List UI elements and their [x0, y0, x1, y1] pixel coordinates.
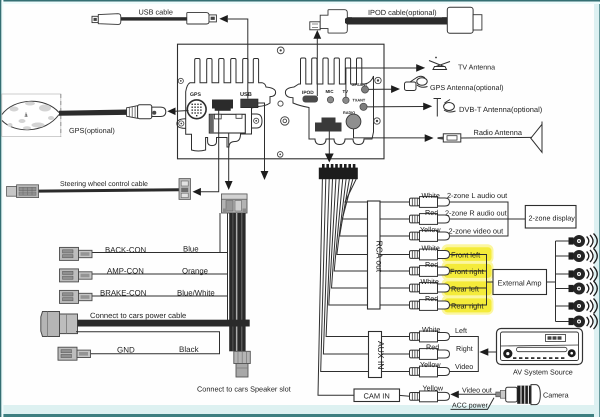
svg-text:Left: Left [455, 326, 467, 335]
head unit chassis box [178, 44, 385, 159]
svg-text:White: White [422, 243, 440, 252]
svg-text:GND: GND [117, 346, 135, 355]
svg-text:Video out: Video out [462, 386, 492, 394]
svg-text:Yellow: Yellow [420, 360, 441, 369]
svg-text:USB: USB [240, 92, 252, 98]
2-zone display box [525, 206, 576, 229]
wires AUX IN rows junction [450, 337, 497, 372]
wire IPOD port up, arrow to IPOD cable [313, 30, 321, 96]
yellow highlight Rear right [442, 295, 494, 314]
wire USB cable down to USB port [228, 19, 248, 99]
speaker 6 [569, 314, 598, 329]
CAM IN box [354, 389, 400, 402]
svg-text:IPOD: IPOD [302, 90, 314, 96]
RCA plug CAM video out [410, 391, 450, 402]
MIC port [326, 89, 335, 103]
RCA plug Front right [410, 266, 450, 277]
screw right edge upper [375, 77, 381, 83]
TV antenna icon [429, 57, 450, 70]
svg-text:CAM IN: CAM IN [364, 392, 390, 401]
svg-text:Radio Antenna: Radio Antenna [474, 128, 523, 137]
svg-text:GPS(optional): GPS(optional) [69, 126, 115, 135]
svg-text:External Amp: External Amp [498, 278, 542, 287]
svg-text:RADIO: RADIO [343, 111, 355, 115]
svg-text:BRAKE-CON: BRAKE-CON [100, 288, 146, 297]
left panel mounting ear + screw [177, 119, 186, 129]
wire steering wheel control, from housing down-left, arrow [193, 111, 219, 196]
steering cable [39, 188, 179, 192]
svg-text:IPOD cable(optional): IPOD cable(optional) [368, 8, 437, 17]
RCA plug 2-zone L audio out [410, 197, 450, 208]
RCA plug Front left [410, 249, 450, 260]
yellow highlight Front left [442, 244, 494, 263]
GPS round port [187, 92, 206, 119]
screw right edge lower [374, 118, 380, 124]
DVB-T antenna icon [434, 99, 456, 117]
USB cable [92, 7, 216, 24]
svg-text:Video: Video [455, 362, 473, 371]
RCA plug Rear right [410, 300, 450, 311]
svg-text:Yellow: Yellow [423, 384, 444, 393]
speaker slot connector bottom [234, 351, 251, 377]
svg-text:2-zone L audio out: 2-zone L audio out [447, 191, 507, 200]
ring center [281, 117, 289, 125]
svg-text:GPSANT: GPSANT [352, 83, 369, 87]
wires to 2-zone display [450, 202, 526, 236]
svg-text:Connect to cars Speaker slot: Connect to cars Speaker slot [197, 385, 291, 394]
GPS ANT port [352, 83, 369, 93]
svg-text:Rear right: Rear right [451, 301, 483, 310]
svg-text:Steering wheel control cable: Steering wheel control cable [60, 180, 148, 188]
GPS cable [59, 110, 127, 116]
svg-text:Yellow: Yellow [420, 225, 441, 234]
svg-text:GPS: GPS [190, 92, 201, 98]
IPOD port [302, 90, 318, 103]
wire from USB port right then down, arrow [258, 103, 268, 180]
dock connector on right panel [315, 118, 342, 132]
IPOD cable (optional) [310, 7, 482, 33]
right rear panel silhouette with heat-sink fins [285, 58, 373, 145]
wire to roof antenna [461, 136, 532, 139]
junction wire from speaker harness down to power cable [227, 213, 229, 320]
svg-text:AMP-CON: AMP-CON [107, 267, 144, 276]
radio antenna plug icon [438, 134, 461, 142]
arrow from AV source into AUX junction [479, 348, 488, 356]
speaker 3 [569, 267, 598, 282]
TX ANT port [353, 98, 368, 110]
wires amp to speakers [547, 241, 572, 322]
white connector housing [209, 114, 245, 133]
svg-text:Rear left: Rear left [451, 284, 479, 293]
svg-text:DVB-T Antenna(optional): DVB-T Antenna(optional) [459, 105, 543, 114]
wire BACK-CON [92, 252, 228, 254]
arrow pointing left at USB cable end [219, 15, 228, 23]
External Amp box [493, 270, 547, 295]
svg-text:Right: Right [456, 344, 473, 353]
RADIO port [343, 111, 361, 129]
svg-text:AV System Source: AV System Source [513, 367, 573, 376]
GPS plug [127, 105, 166, 119]
svg-text:TXANT: TXANT [353, 98, 366, 102]
svg-text:ACC power: ACC power [452, 402, 488, 409]
screw top center [277, 47, 284, 54]
svg-text:White: White [422, 191, 440, 200]
svg-text:BACK-CON: BACK-CON [105, 245, 146, 254]
svg-text:Blue/White: Blue/White [177, 288, 215, 297]
svg-text:Orange: Orange [182, 267, 208, 276]
RCA plug AUX Video [410, 366, 450, 377]
small hole center [278, 101, 283, 106]
svg-text:Red: Red [425, 294, 438, 303]
speaker thick cable [229, 213, 250, 351]
wire BRAKE-CON [92, 295, 228, 297]
wire GPS plug into GPS port, arrow pointing left [167, 108, 188, 116]
svg-text:MIC: MIC [326, 89, 335, 94]
speaker 2 [569, 249, 598, 264]
speaker 1 [569, 234, 598, 249]
spade connector GND [58, 347, 91, 360]
RCA out box [368, 201, 385, 309]
svg-text:Camera: Camera [543, 391, 569, 400]
svg-text:White: White [421, 277, 439, 286]
wire GPSANT port right, arrow [369, 85, 400, 93]
wire RADIO port to radio antenna, arrow [354, 129, 434, 142]
spade connector BACK-CON [60, 247, 93, 260]
GPS antenna map card [2, 94, 61, 137]
screw bottom center [277, 152, 283, 158]
svg-text:2-zone display: 2-zone display [529, 213, 576, 222]
svg-text:2-zone R audio out: 2-zone R audio out [445, 208, 507, 217]
GPS antenna icon [405, 76, 428, 90]
RCA harness black connector [319, 164, 358, 179]
AUX IN box [369, 332, 387, 378]
power thick cable [78, 320, 250, 327]
steering wheel connector left [7, 185, 39, 198]
camera body [496, 385, 541, 405]
steering connector right [179, 179, 191, 200]
svg-text:TV: TV [343, 89, 349, 94]
power harness connector [41, 312, 78, 337]
RCA plug Rear left [410, 283, 450, 294]
wire dock to RCA harness connector, arrow down [325, 132, 334, 163]
roof antenna triangle [531, 122, 542, 153]
spade connector AMP-CON [60, 269, 93, 282]
svg-text:Red: Red [425, 260, 438, 269]
ACC power label and callout [451, 398, 495, 410]
RCA plug AUX Right [410, 349, 450, 360]
TV port [343, 89, 350, 104]
svg-text:RCA out: RCA out [374, 241, 384, 273]
svg-text:Red: Red [426, 343, 439, 352]
wire CAM IN box to plug [400, 394, 410, 397]
wire TV port to TV antenna, arrow right [346, 64, 425, 97]
wires to External Amp [450, 255, 494, 306]
svg-text:Front left: Front left [451, 250, 480, 259]
svg-text:Red: Red [425, 208, 438, 217]
RCA plug AUX Left [410, 331, 450, 342]
speaker 5 [569, 299, 598, 314]
svg-text:GPS Antenna(optional): GPS Antenna(optional) [430, 83, 504, 92]
RCA plug 2-zone video out [410, 231, 450, 242]
connector block beside GPS [212, 100, 233, 111]
wire speaker harness, from housing down, arrow [225, 133, 233, 190]
wire bundle from harness to rows [318, 179, 410, 395]
yellow highlight Rear left [442, 278, 494, 297]
GND wire loop [76, 332, 220, 354]
svg-text:Connect to cars power cable: Connect to cars power cable [90, 311, 186, 320]
wire stub from harness connector [219, 213, 221, 253]
wire CAM plug to camera with arrow [450, 391, 496, 399]
svg-text:2-zone video out: 2-zone video out [449, 226, 504, 235]
svg-text:TV Antenna: TV Antenna [458, 63, 495, 71]
left rear panel silhouette with heat-sink fins [186, 59, 276, 152]
spade connector BRAKE-CON [60, 290, 93, 303]
svg-text:White: White [422, 325, 440, 334]
speaker 4 [569, 281, 598, 296]
svg-text:Black: Black [179, 345, 200, 354]
speaker harness connector top [222, 194, 248, 213]
wire TXANT port to DVB-T antenna, arrow [367, 103, 432, 111]
svg-text:AUX IN: AUX IN [376, 341, 386, 369]
RCA plug 2-zone R audio out [410, 214, 450, 225]
wire AMP-CON [92, 273, 228, 275]
svg-text:Blue: Blue [183, 245, 199, 254]
ear with screw right of housing [252, 114, 263, 128]
yellow highlight Front right [442, 261, 494, 280]
svg-text:USB cable: USB cable [139, 7, 173, 16]
screw left edge [178, 78, 183, 83]
USB port [240, 92, 258, 108]
svg-text:Front right: Front right [450, 267, 484, 276]
